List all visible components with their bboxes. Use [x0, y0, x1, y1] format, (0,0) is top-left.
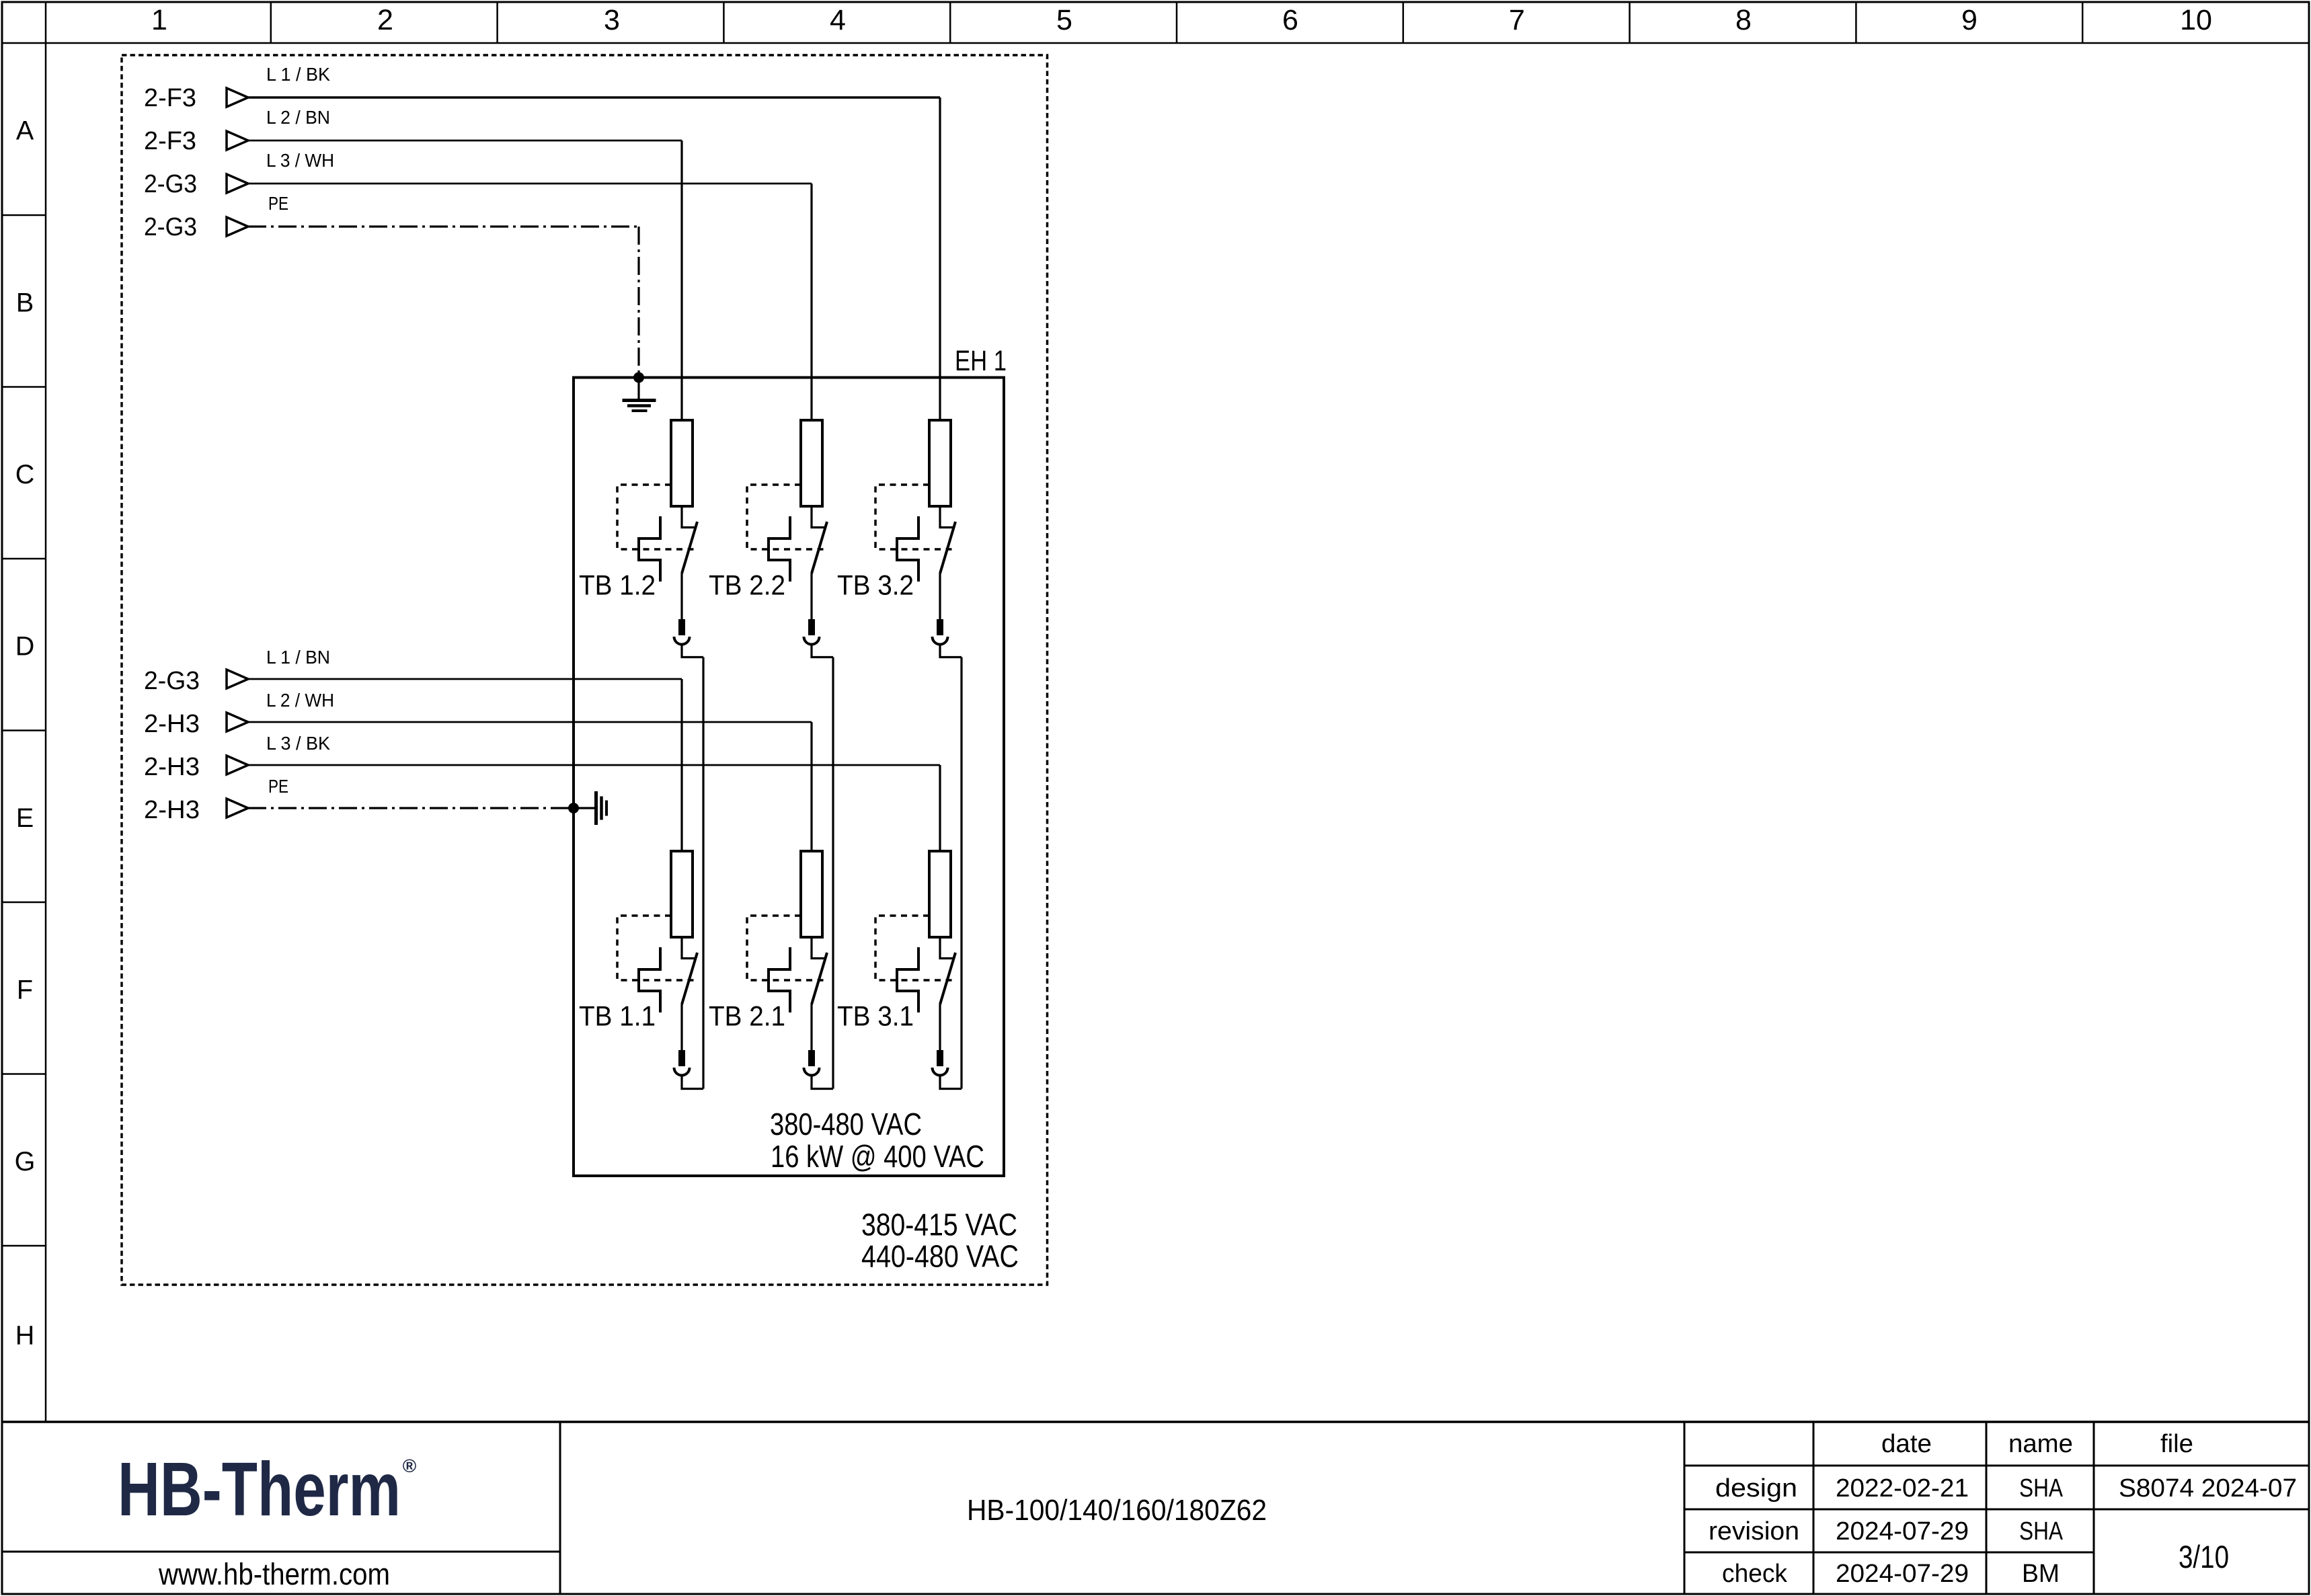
wire PE dash-dot horizontal	[248, 225, 639, 227]
svg-text:2-F3: 2-F3	[144, 127, 196, 155]
svg-text:380-480 VAC: 380-480 VAC	[770, 1107, 922, 1142]
svg-text:2-F3: 2-F3	[144, 84, 196, 112]
svg-text:®: ®	[403, 1455, 417, 1476]
svg-text:PE: PE	[268, 776, 288, 797]
heating element R (chain3 top)	[929, 420, 951, 506]
svg-text:8: 8	[1735, 4, 1752, 36]
svg-text:www.hb-therm.com: www.hb-therm.com	[158, 1557, 390, 1591]
svg-text:E: E	[16, 803, 34, 833]
svg-text:2-G3: 2-G3	[144, 213, 197, 241]
svg-text:L 3 / BK: L 3 / BK	[266, 733, 330, 754]
thermal function dashed box TB1.2	[617, 485, 696, 549]
wire PE dash-dot horizontal bottom	[248, 807, 574, 809]
thermal function dashed box TB3.2	[875, 485, 954, 549]
switch blade TB3.2	[940, 522, 955, 573]
svg-text:D: D	[15, 632, 35, 662]
wire L1/BK vertical drop to EH1 heater 3	[939, 97, 941, 420]
arrow 2-G3 L1	[227, 670, 248, 688]
heating element R (chain2 bottom)	[801, 851, 822, 937]
row header band	[2, 43, 46, 1422]
wire socket to jog	[940, 645, 962, 657]
svg-text:10: 10	[2180, 4, 2212, 36]
wire below element	[812, 506, 826, 528]
svg-text:L 2 / WH: L 2 / WH	[266, 690, 334, 711]
svg-text:2-H3: 2-H3	[144, 753, 200, 781]
wire blade to plug	[810, 573, 812, 619]
svg-text:2-H3: 2-H3	[144, 710, 200, 738]
ground symbol (earth, rotated) right of PE junction	[574, 791, 606, 825]
arrow 2-H3 L3	[227, 756, 248, 774]
switch blade TB2.2	[812, 522, 827, 573]
arrow 2-G3 PE	[227, 217, 248, 236]
wire long vertical to bottom join (chain1)	[702, 657, 704, 1089]
svg-text:2024-07-29: 2024-07-29	[1836, 1560, 1969, 1588]
wire socket to join	[812, 1076, 833, 1089]
svg-text:date: date	[1881, 1430, 1932, 1458]
plug pin (male)	[937, 619, 943, 635]
socket (female)	[933, 637, 948, 645]
svg-text:1: 1	[151, 4, 167, 36]
arrow 2-H3 L2	[227, 713, 248, 731]
wire L1/BK horizontal	[248, 96, 940, 98]
wire blade to plug	[810, 1004, 812, 1050]
arrow 2-G3 L3	[227, 174, 248, 193]
switch blade TB3.1	[940, 953, 955, 1004]
svg-text:SHA: SHA	[2019, 1517, 2064, 1546]
heating element R (chain1 top)	[671, 420, 693, 506]
wire below element	[940, 506, 954, 528]
wire socket to join	[682, 1076, 703, 1089]
wire below element	[682, 506, 696, 528]
junction dot PE on EH1 left edge	[568, 803, 579, 813]
svg-text:L 3 / WH: L 3 / WH	[266, 150, 334, 171]
wire long vertical to bottom join (chain3)	[960, 657, 962, 1089]
arrow 2-H3 PE	[227, 799, 248, 817]
svg-text:G: G	[15, 1147, 36, 1176]
switch blade TB1.1	[682, 953, 697, 1004]
junction dot PE on EH1 top	[633, 372, 644, 383]
heating element R (chain3 bottom)	[929, 851, 951, 937]
svg-text:A: A	[16, 116, 34, 146]
socket (female)	[933, 1068, 948, 1076]
thermal element symbol TB1.1	[639, 947, 660, 1012]
plug pin (male)	[808, 619, 815, 635]
thermal element symbol TB2.1	[769, 947, 790, 1012]
wire below element	[940, 937, 954, 959]
plug pin (male)	[678, 1050, 685, 1066]
wire blade to plug	[939, 1004, 941, 1050]
thermal function dashed box TB3.1	[875, 916, 954, 980]
socket (female)	[804, 1068, 820, 1076]
svg-text:L 2 / BN: L 2 / BN	[266, 107, 330, 128]
wire L3/WH horizontal	[248, 183, 812, 185]
svg-text:6: 6	[1282, 4, 1298, 36]
wire L1/BN horizontal	[248, 678, 682, 680]
svg-text:check: check	[1722, 1560, 1788, 1588]
svg-text:3: 3	[604, 4, 620, 36]
heating element R (chain2 top)	[801, 420, 822, 506]
wire PE dash-dot vertical to EH1	[637, 227, 639, 377]
switch blade TB2.1	[812, 953, 827, 1004]
wire long vertical to bottom join (chain2)	[832, 657, 834, 1089]
wire socket to jog	[812, 645, 833, 657]
svg-text:TB 3.1: TB 3.1	[837, 1000, 914, 1032]
drawing area dashed frame	[122, 55, 1048, 1285]
heating element R (chain1 bottom)	[671, 851, 693, 937]
wire L3/BK horizontal	[248, 764, 940, 766]
svg-text:2022-02-21: 2022-02-21	[1836, 1474, 1969, 1503]
svg-text:16 kW @ 400 VAC: 16 kW @ 400 VAC	[771, 1139, 984, 1174]
svg-text:design: design	[1715, 1474, 1797, 1503]
thermal element symbol TB3.2	[897, 516, 918, 582]
socket (female)	[674, 1068, 690, 1076]
socket (female)	[804, 637, 820, 645]
wire L3/BK vertical drop to heater 3 bottom	[939, 765, 941, 851]
svg-text:TB 1.2: TB 1.2	[579, 569, 656, 601]
svg-text:BM: BM	[2022, 1560, 2060, 1588]
wire socket to jog	[682, 645, 703, 657]
thermal element symbol TB3.1	[897, 947, 918, 1012]
wire L2/BN vertical drop to EH1 heater 1	[680, 141, 682, 420]
svg-text:2: 2	[377, 4, 393, 36]
svg-text:HB-100/140/160/180Z62: HB-100/140/160/180Z62	[967, 1494, 1267, 1527]
svg-text:TB 3.2: TB 3.2	[837, 569, 914, 601]
svg-text:C: C	[15, 460, 35, 489]
thermal function dashed box TB2.2	[747, 485, 826, 549]
arrow 2-F3 L1	[227, 88, 248, 107]
ground symbol (earth) below PE junction	[623, 377, 656, 411]
wire L2/BN horizontal	[248, 140, 682, 142]
svg-text:S8074 2024-07: S8074 2024-07	[2119, 1474, 2297, 1503]
svg-text:2-H3: 2-H3	[144, 796, 200, 824]
wire blade to plug	[939, 573, 941, 619]
svg-text:380-415 VAC: 380-415 VAC	[861, 1207, 1017, 1242]
svg-text:5: 5	[1056, 4, 1072, 36]
svg-text:TB 2.2: TB 2.2	[709, 569, 785, 601]
svg-text:L 1 / BK: L 1 / BK	[266, 64, 330, 85]
svg-text:PE: PE	[268, 193, 288, 214]
svg-text:2-G3: 2-G3	[144, 170, 197, 198]
wire below element	[682, 937, 696, 959]
wire socket to join	[940, 1076, 962, 1089]
svg-text:2024-07-29: 2024-07-29	[1836, 1517, 1969, 1546]
svg-text:name: name	[2008, 1430, 2073, 1458]
wire L3/WH vertical drop to EH1 heater 2	[810, 184, 812, 420]
thermal function dashed box TB1.1	[617, 916, 696, 980]
svg-text:9: 9	[1961, 4, 1977, 36]
svg-text:HB-Therm: HB-Therm	[118, 1447, 401, 1531]
svg-text:TB 1.1: TB 1.1	[579, 1000, 656, 1032]
thermal element symbol TB1.2	[639, 516, 660, 582]
plug pin (male)	[678, 619, 685, 635]
column header band	[2, 2, 2309, 43]
plug pin (male)	[808, 1050, 815, 1066]
plug pin (male)	[937, 1050, 943, 1066]
svg-text:440-480 VAC: 440-480 VAC	[861, 1239, 1019, 1274]
thermal element symbol TB2.2	[769, 516, 790, 582]
svg-text:F: F	[17, 975, 33, 1005]
svg-text:revision: revision	[1709, 1517, 1799, 1546]
svg-text:EH 1: EH 1	[955, 345, 1007, 377]
svg-text:4: 4	[830, 4, 846, 36]
wire below element	[812, 937, 826, 959]
wire L1/BN vertical drop to heater 1 bottom	[680, 679, 682, 851]
svg-text:3/10: 3/10	[2179, 1539, 2229, 1574]
heater unit EH 1 box	[574, 378, 1004, 1176]
svg-text:TB 2.1: TB 2.1	[709, 1000, 785, 1032]
svg-text:2-G3: 2-G3	[144, 667, 200, 695]
switch blade TB1.2	[682, 522, 697, 573]
arrow 2-F3 L2	[227, 131, 248, 150]
svg-text:file: file	[2160, 1430, 2193, 1458]
wire L2/WH horizontal	[248, 721, 812, 723]
wire blade to plug	[680, 573, 682, 619]
socket (female)	[674, 637, 690, 645]
svg-text:H: H	[15, 1321, 35, 1351]
svg-text:7: 7	[1509, 4, 1525, 36]
svg-text:SHA: SHA	[2019, 1474, 2064, 1503]
thermal function dashed box TB2.1	[747, 916, 826, 980]
svg-text:B: B	[16, 288, 34, 318]
svg-text:L 1 / BN: L 1 / BN	[266, 647, 330, 668]
wire blade to plug	[680, 1004, 682, 1050]
wire L2/WH vertical drop to heater 2 bottom	[810, 722, 812, 851]
